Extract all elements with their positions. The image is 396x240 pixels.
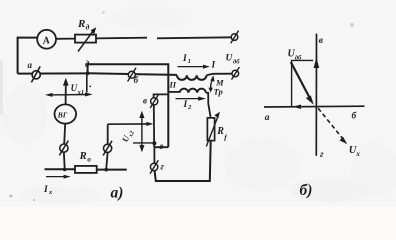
svg-text:II: II: [169, 80, 177, 90]
svg-text:д: д: [86, 23, 90, 32]
label Uх2: [120, 128, 136, 144]
wire: bottom link to е: [155, 146, 169, 148]
label Uх1: [71, 83, 85, 96]
terminal г: [150, 160, 158, 174]
coil I (primary): [177, 75, 206, 80]
resistor Rf (adjustable): [206, 112, 220, 147]
svg-text:х1: х1: [77, 89, 85, 96]
svg-text:г: г: [320, 150, 324, 160]
junction: [104, 168, 108, 172]
svg-text:I: I: [211, 61, 216, 71]
terminal (right, second): [232, 67, 240, 80]
svg-text:R: R: [79, 151, 87, 162]
projection vertical: [291, 60, 293, 106]
dot: [89, 86, 91, 88]
svg-text:а: а: [28, 60, 33, 70]
svg-text:в: в: [143, 95, 147, 105]
Uх2 vertical double arrow: [139, 111, 144, 153]
label Uдб (diagram): [288, 49, 303, 62]
Uх2 wire with arrow: [108, 122, 154, 126]
Uх1 double arrow: [45, 92, 93, 97]
svg-text:б: б: [134, 75, 139, 85]
svg-text:ВГ: ВГ: [57, 110, 68, 119]
terminal б: [128, 68, 136, 82]
dashed vector Uх: [318, 108, 347, 144]
junction е: [152, 141, 156, 145]
svg-text:б): б): [300, 182, 313, 199]
label Iх: [43, 185, 53, 196]
svg-text:е: е: [159, 141, 163, 151]
label I1: [182, 54, 191, 65]
terminal (x108): [103, 141, 112, 156]
label Rf: [216, 126, 228, 142]
svg-text:U: U: [71, 83, 78, 93]
junction: [63, 168, 67, 172]
wire: ammeter to Rd: [56, 38, 75, 40]
label I2: [183, 100, 193, 111]
wire: в down to е: [153, 105, 155, 147]
resistor Rо: [75, 166, 97, 173]
I1 arrow: [178, 65, 210, 69]
axis horizontal: [264, 105, 365, 108]
terminal (ВГ branch): [59, 141, 68, 156]
svg-text:R: R: [77, 18, 85, 30]
left arrowhead on horizontal axis: [293, 105, 301, 110]
label Uдб (circuit): [226, 54, 241, 66]
svg-text:I: I: [183, 100, 188, 110]
terminal (top right): [231, 31, 239, 44]
svg-text:х: х: [355, 150, 360, 158]
bottom wire right: [97, 169, 127, 171]
svg-text:R: R: [216, 126, 224, 137]
wire: left vertical branch: [18, 38, 37, 74]
wire: stub to coil II: [168, 91, 179, 93]
wire: bottom right loop: [155, 141, 211, 181]
junction д: [86, 71, 90, 75]
svg-text:I: I: [182, 54, 187, 64]
svg-text:в: в: [319, 36, 324, 46]
svg-text:дб: дб: [233, 59, 240, 66]
label Uх: [349, 145, 361, 158]
svg-text:А: А: [41, 35, 50, 47]
wire: corner to в branch: [154, 94, 169, 97]
wire: coil II right end down to Rf: [206, 93, 211, 118]
resistor Rд (adjustable): [75, 27, 96, 51]
coil II (secondary): [180, 89, 206, 93]
Iх arrow: [46, 175, 71, 179]
svg-text:1: 1: [188, 58, 191, 65]
main wire a-d-b to coil I: [18, 72, 86, 74]
label Rо: [79, 151, 92, 163]
svg-text:а): а): [111, 185, 124, 202]
svg-text:о: о: [87, 155, 91, 163]
wire: vertical at x108: [107, 124, 109, 144]
wire: ВГ to terminal: [64, 124, 65, 144]
wire: [106, 153, 107, 170]
bold diagonal vector: [291, 62, 314, 105]
ammeter A: [37, 30, 56, 49]
Uдб vector arrowhead (up): [314, 57, 320, 68]
I2 arrow: [176, 97, 207, 101]
galvanometer ВГ: [55, 104, 77, 123]
svg-text:Тр: Тр: [214, 87, 223, 97]
wire: upper loop from д: [88, 64, 169, 147]
terminal в: [150, 95, 158, 108]
svg-text:дб: дб: [295, 54, 302, 61]
svg-text:I: I: [43, 185, 48, 195]
terminal а: [31, 66, 40, 82]
wire: е down to г: [153, 147, 155, 163]
label Rд: [77, 18, 90, 32]
svg-text:а: а: [265, 113, 270, 123]
scan noise: [350, 23, 354, 27]
axis vertical: [315, 34, 317, 156]
wire: terminal to bottom: [63, 152, 66, 169]
M coupling arrow: [209, 75, 215, 92]
up arrow on ВГ branch: [63, 78, 69, 105]
bottom wire left: [45, 168, 76, 170]
wire: [157, 37, 231, 38]
wire: primary right end to terminal: [207, 74, 232, 76]
tick at е level: [133, 142, 154, 144]
tick at vector tip: [291, 59, 313, 61]
wire: Rд to right terminal: [96, 37, 147, 40]
wire: short drop from д: [86, 73, 88, 92]
